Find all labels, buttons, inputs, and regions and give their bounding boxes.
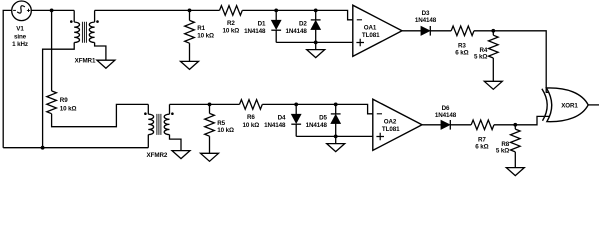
wire D3 to R3	[430, 30, 451, 32]
resistor R4	[492, 31, 494, 35]
svg-text:D3: D3	[422, 10, 430, 17]
resistor R5	[209, 104, 211, 113]
ground below D2	[307, 50, 325, 58]
transformer XFMR1	[70, 10, 99, 42]
junction rail-XFMR1return	[41, 146, 45, 150]
ground XFMR2	[172, 151, 190, 159]
svg-text:1N4148: 1N4148	[264, 122, 286, 129]
wire top row XFMR1 to R2	[95, 9, 220, 11]
junction D5 top	[334, 103, 338, 107]
junction R1 top	[188, 9, 192, 13]
svg-text:D2: D2	[299, 20, 307, 27]
xor gate XOR1	[542, 88, 588, 122]
op-amp OA2 TL081	[373, 99, 422, 150]
svg-text:5 kΩ: 5 kΩ	[496, 148, 509, 155]
wire XFMR1 primary bottom to rail	[43, 43, 75, 148]
source V1 sine 1kHz	[12, 1, 32, 21]
wire D6 to R7	[450, 124, 471, 126]
diode D4 1N4148	[295, 104, 297, 114]
junction D2 bottom	[314, 41, 318, 45]
wire R7 to XOR lower input	[494, 116, 550, 124]
ground XFMR1	[97, 60, 115, 68]
wire D2 bottom to ground	[315, 42, 317, 49]
ground below D5	[327, 144, 345, 152]
junction D5 bottom	[334, 135, 338, 139]
svg-text:XFMR2: XFMR2	[147, 152, 168, 159]
svg-text:R2: R2	[227, 20, 235, 27]
junction R4 top	[491, 29, 495, 33]
transformer XFMR2	[144, 104, 174, 134]
wire XFMR2 primary bottom to rail	[147, 135, 149, 148]
svg-text:OA2: OA2	[384, 118, 397, 125]
wire R9 to XFMR2 primary	[52, 104, 149, 126]
wire OA2 output to D6	[422, 124, 441, 126]
svg-text:R6: R6	[247, 114, 255, 121]
resistor R9	[47, 91, 57, 114]
ground R8	[506, 168, 524, 176]
wire XFMR1 secondary bottom to ground	[95, 43, 106, 61]
svg-text:V1: V1	[16, 26, 24, 33]
svg-text:TL081: TL081	[382, 126, 400, 133]
resistor R6	[240, 100, 263, 110]
diode D5 1N4148	[335, 104, 337, 114]
svg-text:1N4148: 1N4148	[415, 17, 437, 24]
svg-text:5 kΩ: 5 kΩ	[474, 54, 487, 61]
svg-text:D6: D6	[442, 105, 450, 112]
wire bottom rail	[3, 147, 148, 149]
wire V1 minus to left rail	[3, 10, 12, 147]
svg-text:1N4148: 1N4148	[286, 28, 308, 35]
ground R1	[181, 61, 199, 69]
svg-text:10 kΩ: 10 kΩ	[223, 27, 240, 34]
op-amp OA1 TL081	[353, 5, 402, 56]
wire rectified row to opamp plus	[276, 41, 353, 43]
diode D3 1N4148	[421, 26, 430, 35]
svg-text:1N4148: 1N4148	[306, 122, 328, 129]
junction D1 top	[274, 9, 278, 13]
svg-text:D4: D4	[278, 114, 286, 121]
resistor R2	[220, 6, 243, 16]
junction D2 top	[314, 9, 318, 13]
node A junction	[50, 9, 54, 13]
svg-text:10 kΩ: 10 kΩ	[217, 127, 234, 134]
ground R5	[201, 153, 219, 161]
wire XOR1 output	[588, 104, 599, 106]
diode D6 1N4148	[441, 120, 450, 129]
svg-text:R1: R1	[197, 25, 205, 32]
junction R5 top	[208, 103, 212, 107]
diode D1 1N4148	[275, 10, 277, 20]
svg-text:XOR1: XOR1	[561, 103, 578, 110]
junction R8 top	[513, 123, 517, 127]
wire lower rectified row to OA2 plus	[296, 135, 373, 137]
svg-text:R9: R9	[60, 97, 68, 104]
wire R6 to OA2 jog	[262, 104, 373, 113]
wire lower top row XFMR2 to R6	[170, 103, 240, 105]
wire node A down to R9	[51, 10, 53, 91]
diode D2 1N4148	[315, 10, 317, 20]
resistor R8	[514, 125, 516, 129]
wire XFMR2 secondary bottom to ground	[170, 135, 182, 151]
junction D4 top	[294, 103, 298, 107]
resistor R7	[471, 120, 494, 130]
svg-text:sine: sine	[14, 33, 27, 40]
resistor R1	[189, 10, 191, 20]
wire R2 to opamp jog	[242, 10, 352, 19]
wire OA1 output to D3	[402, 30, 421, 32]
svg-text:10 kΩ: 10 kΩ	[197, 33, 214, 40]
wire V1 plus to XFMR1	[31, 9, 74, 11]
svg-text:1N4148: 1N4148	[435, 112, 457, 119]
svg-text:6 kΩ: 6 kΩ	[455, 49, 468, 56]
svg-text:6 kΩ: 6 kΩ	[475, 143, 488, 150]
svg-text:D5: D5	[319, 114, 327, 121]
svg-text:D1: D1	[258, 20, 266, 27]
svg-text:TL081: TL081	[362, 32, 380, 39]
svg-text:10 kΩ: 10 kΩ	[60, 105, 77, 112]
resistor R3	[451, 26, 474, 36]
wire R3 to XOR upper input	[474, 31, 550, 93]
svg-text:10 kΩ: 10 kΩ	[243, 122, 260, 129]
svg-text:OA1: OA1	[364, 24, 377, 31]
wire D5 bottom to ground	[335, 136, 337, 143]
svg-text:XFMR1: XFMR1	[75, 58, 96, 65]
svg-text:1N4148: 1N4148	[244, 28, 266, 35]
ground R4	[484, 81, 502, 89]
svg-text:1 kHz: 1 kHz	[12, 41, 28, 48]
